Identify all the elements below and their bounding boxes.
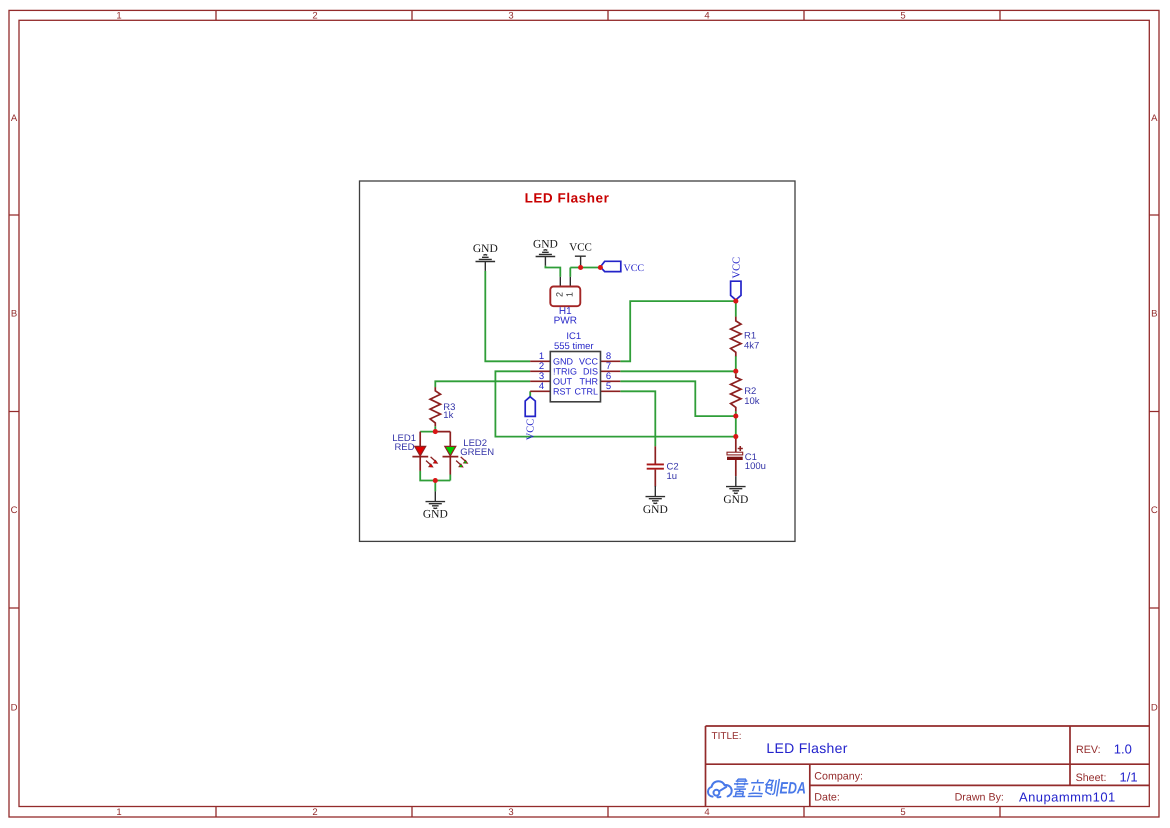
svg-text:2: 2 [555, 292, 565, 297]
svg-text:GND: GND [643, 504, 668, 516]
svg-text:3: 3 [508, 807, 513, 818]
svg-text:Drawn By:: Drawn By: [955, 792, 1004, 804]
svg-text:CTRL: CTRL [574, 387, 598, 397]
svg-text:2: 2 [312, 807, 317, 818]
svg-text:TITLE:: TITLE: [712, 731, 742, 742]
svg-text:GND: GND [473, 243, 498, 255]
svg-text:GND: GND [723, 494, 748, 506]
svg-text:D: D [1151, 703, 1158, 714]
svg-text:VCC: VCC [569, 241, 592, 253]
svg-text:5: 5 [900, 807, 905, 818]
svg-text:GND: GND [423, 509, 448, 521]
svg-text:1: 1 [565, 292, 575, 297]
svg-text:4: 4 [539, 381, 544, 392]
svg-text:10k: 10k [744, 396, 760, 407]
svg-text:1: 1 [116, 11, 121, 22]
svg-text:OUT: OUT [553, 377, 573, 387]
svg-text:DIS: DIS [583, 367, 598, 377]
svg-text:Company:: Company: [814, 771, 863, 783]
svg-text:GREEN: GREEN [460, 447, 494, 458]
svg-text:5: 5 [606, 381, 611, 392]
svg-text:1u: 1u [667, 471, 678, 482]
svg-text:A: A [1151, 113, 1158, 124]
svg-text:1: 1 [116, 807, 121, 818]
svg-text:A: A [11, 113, 18, 124]
svg-text:C: C [1151, 505, 1158, 516]
svg-text:C: C [11, 505, 18, 516]
svg-text:THR: THR [580, 377, 599, 387]
svg-text:VCC: VCC [526, 419, 537, 441]
svg-text:RST: RST [553, 387, 572, 397]
svg-text:555 timer: 555 timer [554, 341, 594, 352]
svg-text:1/1: 1/1 [1120, 770, 1138, 785]
svg-text:GND: GND [533, 239, 558, 251]
svg-text:!TRIG: !TRIG [553, 367, 577, 377]
svg-text:5: 5 [900, 11, 905, 22]
svg-text:RED: RED [394, 442, 414, 453]
svg-text:2: 2 [312, 11, 317, 22]
svg-text:GND: GND [553, 357, 574, 367]
svg-text:VCC: VCC [579, 357, 599, 367]
svg-text:VCC: VCC [732, 257, 743, 279]
svg-text:Date:: Date: [814, 792, 840, 804]
svg-text:PWR: PWR [554, 315, 577, 326]
svg-text:1.0: 1.0 [1114, 742, 1132, 757]
svg-text:4: 4 [704, 807, 709, 818]
svg-text:VCC: VCC [624, 263, 645, 274]
svg-text:1k: 1k [443, 410, 453, 421]
svg-text:EDA: EDA [780, 779, 807, 797]
svg-text:B: B [11, 309, 17, 320]
svg-text:LED Flasher: LED Flasher [525, 190, 610, 205]
svg-text:LED Flasher: LED Flasher [766, 740, 847, 756]
svg-text:REV:: REV: [1076, 744, 1101, 756]
svg-text:D: D [11, 703, 18, 714]
svg-text:Anupammm101: Anupammm101 [1019, 790, 1116, 805]
svg-text:4: 4 [704, 11, 709, 22]
svg-text:4k7: 4k7 [744, 340, 759, 351]
svg-text:B: B [1151, 309, 1157, 320]
svg-text:3: 3 [508, 11, 513, 22]
svg-text:100u: 100u [745, 461, 766, 472]
svg-text:Sheet:: Sheet: [1076, 772, 1107, 784]
